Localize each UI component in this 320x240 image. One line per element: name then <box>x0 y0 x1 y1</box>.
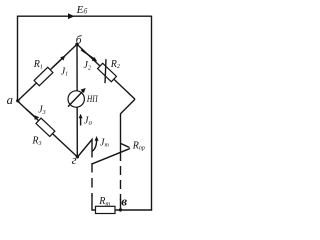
current arrow J3 <box>26 109 37 118</box>
svg-text:Jт: Jт <box>100 137 109 148</box>
svg-text:J2: J2 <box>84 60 91 71</box>
svg-text:R2: R2 <box>110 59 120 70</box>
arrow through galvanometer <box>68 91 83 107</box>
node b <box>75 43 79 47</box>
resistor R1 <box>34 67 53 86</box>
svg-text:J0: J0 <box>84 116 92 127</box>
arrow current direction on battery lead <box>68 13 75 19</box>
resistor R3 <box>36 118 55 136</box>
resistor R2 adjustable <box>98 63 117 81</box>
pointer line from Rpr to left lead <box>92 149 130 164</box>
svg-text:J1: J1 <box>61 66 68 77</box>
wire left edge from top corner to node a <box>17 16 19 101</box>
slash through R2 <box>105 59 106 83</box>
svg-text:г: г <box>72 153 77 167</box>
current arrow J1 <box>53 58 63 68</box>
node g <box>76 155 79 158</box>
wire left connecting lead diagonal from node g <box>78 140 93 158</box>
wire bridge arm a to g <box>18 101 78 157</box>
node v <box>119 208 122 211</box>
svg-text:J3: J3 <box>38 104 45 115</box>
wire right connecting lead dashed portion <box>120 152 122 200</box>
node a <box>16 99 19 102</box>
svg-text:Rт: Rт <box>98 196 110 207</box>
svg-text:а: а <box>7 93 13 107</box>
pointer line from Rpr to right lead <box>121 144 130 148</box>
current arrow Jt curved <box>92 140 97 152</box>
svg-text:Еб: Еб <box>76 4 88 16</box>
wire left connecting lead dashed portion <box>91 148 93 196</box>
svg-text:в: в <box>121 194 127 209</box>
current arrow J2 <box>81 50 94 59</box>
wire bridge arm b to right vertex <box>77 44 135 99</box>
svg-text:Rпр: Rпр <box>132 140 145 151</box>
wire bridge arm a to b <box>18 44 78 101</box>
svg-text:R1: R1 <box>33 59 43 70</box>
wire right connecting lead from right vertex bend <box>121 99 136 152</box>
svg-text:б: б <box>76 34 83 46</box>
wire right edge from top corner to bottom corner <box>151 16 153 211</box>
svg-text:R3: R3 <box>31 136 41 147</box>
wire bridge diagonal b to g through null indicator <box>76 44 78 157</box>
wire top battery lead a to right edge <box>18 15 152 17</box>
wire right connecting lead lower solid to node v <box>120 199 122 210</box>
svg-text:НП: НП <box>86 95 98 105</box>
wire bottom from right corner to thermometer <box>114 209 152 211</box>
wire left connecting lead lower solid to thermometer <box>92 195 96 210</box>
null indicator NP galvanometer <box>68 91 84 107</box>
current arrow J0 <box>80 117 82 126</box>
resistor Rt thermometer <box>96 206 116 213</box>
